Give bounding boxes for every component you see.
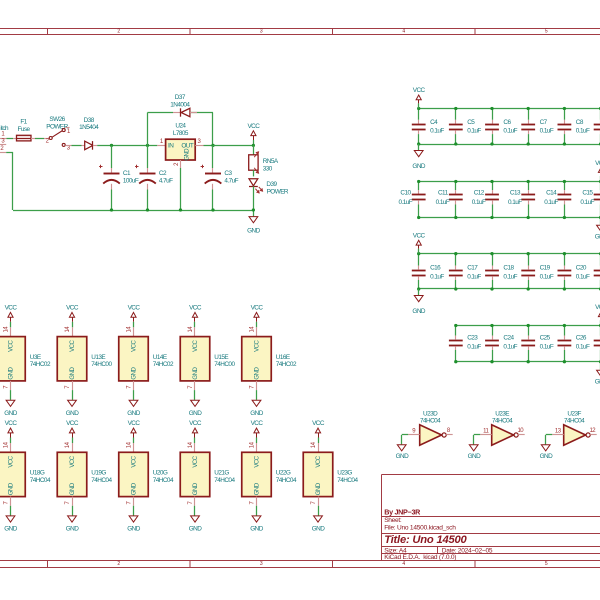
wire U23F input to ground [546, 434, 553, 436]
capacitor C11 0.1uF [455, 182, 457, 191]
svg-text:GND: GND [66, 526, 79, 533]
svg-text:VCC: VCC [192, 340, 199, 352]
capacitor C7 0.1uF [528, 109, 530, 120]
ground symbol GND main [249, 217, 258, 223]
svg-text:4: 4 [402, 561, 405, 567]
svg-text:GND: GND [540, 453, 553, 460]
U22G body [242, 452, 272, 496]
svg-text:74HC02: 74HC02 [153, 361, 174, 368]
svg-text:74HC04: 74HC04 [420, 417, 441, 424]
svg-text:VCC: VCC [413, 87, 426, 94]
svg-text:U13E: U13E [91, 354, 105, 361]
svg-text:GND: GND [468, 453, 481, 460]
capacitor C4 0.1uF [418, 109, 420, 120]
junction top rail at x=564.4 (row C) [563, 252, 566, 255]
U18G pin 14 VCC [10, 443, 12, 452]
svg-text:F1: F1 [20, 119, 27, 126]
connector pin 1 [0, 138, 7, 140]
svg-text:KiCad E.D.A. kicad (7.0.0): KiCad E.D.A. kicad (7.0.0) [384, 554, 456, 561]
svg-text:GND: GND [4, 526, 17, 533]
junction bottom rail at x=455.8 (row B) [454, 216, 457, 219]
svg-text:L7805: L7805 [173, 130, 189, 137]
svg-text:VCC: VCC [189, 304, 202, 311]
capacitor C14 0.1uF [564, 182, 566, 191]
svg-text:U23D: U23D [423, 410, 438, 417]
U21G body [180, 452, 210, 496]
U23G pin 7 GND [318, 497, 320, 506]
svg-text:VCC: VCC [595, 304, 600, 311]
svg-text:0.1uF: 0.1uF [436, 199, 450, 206]
svg-text:VCC: VCC [253, 455, 260, 467]
junction top rail at x=528.2 (row B) [527, 180, 530, 183]
capacitor C26 0.1uF [564, 326, 566, 336]
svg-text:GND: GND [4, 410, 17, 417]
bypass diode D37 1N4004 loop wires [147, 113, 149, 146]
LED D39 POWER [249, 179, 258, 186]
svg-text:GND: GND [130, 367, 137, 380]
svg-text:GND: GND [7, 367, 14, 380]
junction top rail at x=564.4 (row A) [563, 107, 566, 110]
svg-text:74HC00: 74HC00 [214, 361, 235, 368]
junction bottom rail at x=455.8 (row C) [454, 287, 457, 290]
svg-text:0.1uF: 0.1uF [467, 274, 481, 281]
svg-text:D37: D37 [175, 94, 186, 101]
U23E output pin 10 [518, 434, 525, 436]
svg-text:U23G: U23G [337, 470, 352, 477]
junction bottom rail at x=528.2 (row B) [527, 216, 530, 219]
svg-text:GND: GND [250, 410, 263, 417]
junction bottom rail at x=418.7 (row B) [417, 216, 420, 219]
svg-text:GND: GND [595, 233, 600, 240]
svg-text:74HC04: 74HC04 [30, 477, 51, 484]
wire fuse to switch SW26 [31, 138, 35, 140]
svg-text:C24: C24 [503, 335, 514, 342]
svg-text:GND: GND [250, 526, 263, 533]
VCC rail (row D) [456, 325, 600, 327]
svg-text:0.1uF: 0.1uF [503, 128, 517, 135]
U13E body [57, 337, 87, 381]
resistor RN5A 330 [249, 155, 258, 170]
svg-text:2: 2 [117, 29, 120, 35]
ground symbol at U23F input [541, 445, 550, 451]
svg-text:VCC: VCC [7, 340, 14, 352]
svg-text:File: Uno 14500.kicad_sch: File: Uno 14500.kicad_sch [384, 525, 456, 532]
wire U23E input to ground [474, 434, 481, 436]
svg-text:U15E: U15E [214, 354, 228, 361]
svg-text:GND: GND [7, 482, 14, 495]
svg-text:0.1uF: 0.1uF [503, 344, 517, 351]
junction bottom rail at x=600.6 (row B) [599, 216, 600, 219]
svg-text:VCC: VCC [130, 340, 137, 352]
svg-text:GND: GND [247, 228, 260, 235]
svg-text:U23F: U23F [567, 410, 581, 417]
svg-text:74HC04: 74HC04 [91, 477, 112, 484]
svg-text:C25: C25 [540, 335, 551, 342]
junction top rail at x=492.0 (row D) [490, 324, 493, 327]
svg-text:74HC04: 74HC04 [276, 477, 297, 484]
svg-text:VCC: VCC [66, 304, 79, 311]
svg-text:C4: C4 [430, 119, 438, 126]
U20G pin 14 VCC [133, 443, 135, 452]
U14E body [119, 337, 149, 381]
switch pin 3 contact [62, 143, 65, 146]
junction top rail at x=492.0 (row B) [490, 180, 493, 183]
connector pin 2 [0, 152, 6, 154]
svg-text:1N5404: 1N5404 [79, 124, 99, 131]
svg-text:C3: C3 [224, 170, 232, 177]
capacitor C19 0.1uF [528, 254, 530, 266]
svg-text:C5: C5 [467, 119, 475, 126]
capacitor C6 0.1uF [492, 109, 494, 120]
ground symbol below U21G [191, 516, 200, 522]
U23F output pin 12 [590, 434, 597, 436]
junction top rail at x=455.8 (row B) [454, 180, 457, 183]
ground symbol below U22G [252, 516, 261, 522]
svg-text:0.1uF: 0.1uF [508, 199, 522, 206]
U23D output pin 8 [446, 434, 453, 436]
junction at C2 / D37 loop [146, 144, 149, 147]
svg-text:GND: GND [192, 482, 199, 495]
U3E pin 14 VCC [10, 327, 12, 336]
U18G body [0, 452, 25, 496]
junction top rail at x=528.2 (row A) [527, 107, 530, 110]
junction bottom rail at x=564.4 (row C) [563, 287, 566, 290]
svg-text:C20: C20 [576, 265, 587, 272]
junction bottom rail at x=564.4 (row D) [563, 360, 566, 363]
U22G pin 14 VCC [256, 443, 258, 452]
svg-text:0.1uF: 0.1uF [503, 274, 517, 281]
svg-text:GND: GND [127, 526, 140, 533]
svg-text:C13: C13 [510, 190, 521, 197]
junction top rail at x=492.0 (row C) [490, 252, 493, 255]
title block [382, 475, 600, 561]
svg-text:U18G: U18G [30, 470, 45, 477]
U15E pin 7 GND [194, 381, 196, 390]
svg-text:C26: C26 [576, 335, 587, 342]
svg-text:74HC04: 74HC04 [564, 417, 585, 424]
svg-text:0.1uF: 0.1uF [472, 199, 486, 206]
ground symbol GND (row A) [418, 144, 420, 151]
U19G pin 14 VCC [72, 443, 74, 452]
junction bottom rail at x=600.6 (row C) [599, 287, 600, 290]
svg-text:GND: GND [189, 410, 202, 417]
svg-text:74HC04: 74HC04 [492, 417, 513, 424]
ground symbol GND (row C) [418, 289, 420, 296]
wire connector pin1 to fuse F1 [7, 138, 14, 140]
svg-text:GND: GND [69, 367, 76, 380]
capacitor C18 0.1uF [492, 254, 494, 266]
svg-text:GND: GND [253, 482, 260, 495]
svg-text:VCC: VCC [128, 304, 141, 311]
svg-text:C2: C2 [159, 170, 167, 177]
junction top rail at x=455.8 (row A) [454, 107, 457, 110]
svg-text:GND: GND [69, 482, 76, 495]
svg-text:By JNP−3R: By JNP−3R [384, 508, 421, 517]
U23D input pin 9 [408, 434, 420, 436]
svg-text:C17: C17 [467, 265, 478, 272]
junction top rail at x=564.4 (row D) [563, 324, 566, 327]
capacitor C16 0.1uF [418, 254, 420, 266]
svg-text:4.7uF: 4.7uF [224, 178, 238, 185]
U3E body [0, 337, 25, 381]
junction at C1 [110, 144, 113, 147]
svg-text:0.1uF: 0.1uF [430, 128, 444, 135]
svg-text:VCC: VCC [253, 340, 260, 352]
junction top rail at x=528.2 (row D) [527, 324, 530, 327]
svg-text:GND: GND [130, 482, 137, 495]
svg-text:5: 5 [545, 561, 548, 567]
svg-text:0.1uF: 0.1uF [576, 274, 590, 281]
junction top rail at x=564.4 (row B) [563, 180, 566, 183]
ground symbol at U23D input [397, 445, 406, 451]
wire U23D input to ground [402, 434, 409, 436]
svg-text:GND: GND [595, 379, 600, 386]
connector pin 3 [0, 144, 6, 146]
svg-text:0.1uF: 0.1uF [576, 128, 590, 135]
U15E pin 14 VCC [194, 327, 196, 336]
junction bottom rail at x=600.6 (row A) [599, 142, 600, 145]
ground symbol below U13E [68, 400, 77, 406]
svg-text:74HC04: 74HC04 [153, 477, 174, 484]
wire switch to diode D38 [72, 145, 82, 147]
svg-text:0.1uF: 0.1uF [540, 274, 554, 281]
svg-text:D38: D38 [84, 117, 95, 124]
svg-text:VCC: VCC [251, 304, 264, 311]
U16E pin 7 GND [256, 381, 258, 390]
svg-text:VCC: VCC [130, 455, 137, 467]
svg-text:VCC: VCC [69, 340, 76, 352]
junction ground rail at C3 [211, 208, 214, 211]
VCC rail (row C) [419, 253, 600, 255]
svg-text:100uF: 100uF [123, 178, 139, 185]
svg-text:0.1uF: 0.1uF [540, 128, 554, 135]
junction bottom rail at x=528.2 (row D) [527, 360, 530, 363]
svg-text:0.1uF: 0.1uF [399, 199, 413, 206]
capacitor C2 4.7uF [147, 145, 149, 168]
junction bottom rail at x=492.0 (row D) [490, 360, 493, 363]
svg-text:2: 2 [117, 561, 120, 567]
capacitor C8 0.1uF [564, 109, 566, 120]
junction ground rail at C2 [146, 208, 149, 211]
svg-text:GND: GND [189, 526, 202, 533]
svg-text:1N4004: 1N4004 [170, 101, 190, 108]
svg-text:Sheet:: Sheet: [384, 517, 402, 524]
svg-text:GND: GND [127, 410, 140, 417]
svg-text:5: 5 [545, 29, 548, 35]
junction top rail at x=600.6 (row B) [599, 180, 600, 183]
junction top rail at x=418.7 (row C) [417, 252, 420, 255]
svg-text:GND: GND [192, 367, 199, 380]
ground symbol below U16E [252, 400, 261, 406]
svg-text:VCC: VCC [69, 455, 76, 467]
wire D38 to regulator input / node [97, 145, 157, 147]
junction top rail at x=455.8 (row C) [454, 252, 457, 255]
svg-text:VCC: VCC [5, 304, 18, 311]
svg-text:Fuse: Fuse [17, 126, 30, 133]
U3E pin 7 GND [10, 381, 12, 390]
capacitor C17 0.1uF [455, 254, 457, 266]
svg-text:GND: GND [396, 453, 409, 460]
svg-text:0.1uF: 0.1uF [430, 274, 444, 281]
junction top rail at x=600.6 (row D) [599, 324, 600, 327]
U20G body [119, 452, 149, 496]
U21G pin 7 GND [194, 497, 196, 506]
svg-text:RN5A: RN5A [263, 158, 279, 165]
ground symbol below U23G [314, 516, 323, 522]
junction bottom rail at x=492.0 (row A) [490, 142, 493, 145]
U14E pin 14 VCC [133, 327, 135, 336]
svg-text:74HC02: 74HC02 [30, 361, 51, 368]
junction at C3 / OUT [211, 144, 214, 147]
svg-text:GND: GND [315, 482, 322, 495]
svg-text:4.7uF: 4.7uF [159, 178, 173, 185]
U13E pin 14 VCC [72, 327, 74, 336]
fuse F1 [17, 135, 32, 141]
svg-text:SW26: SW26 [49, 116, 65, 123]
U19G body [57, 452, 87, 496]
U21G pin 14 VCC [194, 443, 196, 452]
junction bottom rail at x=528.2 (row C) [527, 287, 530, 290]
svg-text:U21G: U21G [214, 470, 229, 477]
svg-text:74HC04: 74HC04 [337, 477, 358, 484]
svg-text:3: 3 [260, 29, 263, 35]
svg-text:C12: C12 [474, 190, 485, 197]
junction top rail at x=600.6 (row A) [599, 107, 600, 110]
svg-text:0.1uF: 0.1uF [467, 344, 481, 351]
svg-text:74HC00: 74HC00 [91, 361, 112, 368]
capacitor C1 100uF [111, 145, 113, 168]
svg-text:GND: GND [66, 410, 79, 417]
junction top rail at x=455.8 (row D) [454, 324, 457, 327]
ground symbol at U23E input [469, 445, 478, 451]
svg-text:VCC: VCC [192, 455, 199, 467]
svg-text:IN: IN [168, 142, 174, 149]
svg-text:VCC: VCC [7, 455, 14, 467]
GND rail (row C) [419, 288, 600, 290]
svg-text:C1: C1 [123, 170, 131, 177]
svg-text:VCC: VCC [247, 123, 260, 130]
VCC rail (row B) [419, 181, 600, 183]
junction ground rail at C1 [110, 208, 113, 211]
ground symbol below U15E [191, 400, 200, 406]
svg-text:C7: C7 [540, 119, 548, 126]
svg-text:U16E: U16E [276, 354, 290, 361]
svg-text:GND: GND [412, 308, 425, 315]
junction bottom rail at x=418.7 (row A) [417, 142, 420, 145]
ground symbol below U14E [129, 400, 138, 406]
capacitor C5 0.1uF [455, 109, 457, 120]
junction bottom rail at x=564.4 (row B) [563, 216, 566, 219]
svg-text:U22G: U22G [276, 470, 291, 477]
U15E body [180, 337, 210, 381]
svg-text:D39: D39 [266, 181, 277, 188]
svg-text:OUT: OUT [181, 142, 193, 149]
svg-text:GND: GND [412, 163, 425, 170]
capacitor C13 0.1uF [528, 182, 530, 191]
junction bottom rail at x=455.8 (row A) [454, 142, 457, 145]
U20G pin 7 GND [133, 497, 135, 506]
svg-text:VCC: VCC [251, 420, 264, 427]
capacitor C24 0.1uF [492, 326, 494, 336]
U23F input pin 13 [552, 434, 564, 436]
svg-text:C8: C8 [576, 119, 584, 126]
U24 pin 3 OUT [195, 145, 203, 147]
svg-text:0.1uF: 0.1uF [544, 199, 558, 206]
junction top rail at x=600.6 (row C) [599, 252, 600, 255]
junction at ground rail end [252, 208, 255, 211]
svg-text:U19G: U19G [91, 470, 106, 477]
svg-text:U24: U24 [175, 123, 186, 130]
ground symbol below U3E [6, 400, 15, 406]
ground symbol below U19G [68, 516, 77, 522]
svg-text:74HC02: 74HC02 [276, 361, 297, 368]
U18G pin 7 GND [10, 497, 12, 506]
svg-text:VCC: VCC [128, 420, 141, 427]
svg-text:GND: GND [312, 526, 325, 533]
svg-text:C19: C19 [540, 265, 551, 272]
U13E pin 7 GND [72, 381, 74, 390]
wire LED to ground rail [253, 186, 255, 216]
capacitor C20 0.1uF [564, 254, 566, 266]
junction bottom rail at x=455.8 (row D) [454, 360, 457, 363]
junction top rail at x=418.7 (row A) [417, 107, 420, 110]
svg-text:4: 4 [402, 29, 405, 35]
svg-text:VCC: VCC [5, 420, 18, 427]
svg-text:POWER: POWER [267, 189, 289, 196]
svg-text:C14: C14 [546, 190, 557, 197]
svg-text:C18: C18 [503, 265, 514, 272]
junction bottom rail at x=418.7 (row C) [417, 287, 420, 290]
capacitor C23 0.1uF [455, 326, 457, 336]
svg-text:C23: C23 [467, 335, 478, 342]
ground symbol below U20G [129, 516, 138, 522]
svg-text:0.1uF: 0.1uF [540, 344, 554, 351]
svg-text:VCC: VCC [315, 455, 322, 467]
switch pin 1 stub [65, 127, 69, 129]
junction bottom rail at x=492.0 (row B) [490, 216, 493, 219]
svg-text:VCC: VCC [312, 420, 325, 427]
GND rail (row D) [456, 361, 600, 363]
svg-text:330: 330 [263, 165, 273, 172]
svg-text:0.1uF: 0.1uF [580, 199, 594, 206]
ground symbol below U18G [6, 516, 15, 522]
svg-text:U20G: U20G [153, 470, 168, 477]
junction top rail at x=418.7 (row B) [417, 180, 420, 183]
svg-text:U3E: U3E [30, 354, 41, 361]
svg-text:VCC: VCC [189, 420, 202, 427]
U23E input pin 11 [480, 434, 492, 436]
U14E pin 7 GND [133, 381, 135, 390]
svg-text:0.1uF: 0.1uF [576, 344, 590, 351]
U24 pin 2 GND [180, 160, 182, 168]
wire connector pin2 down and ground rail [6, 152, 13, 154]
junction bottom rail at x=492.0 (row C) [490, 287, 493, 290]
capacitor C3 4.7uF [212, 145, 214, 168]
junction bottom rail at x=528.2 (row A) [527, 142, 530, 145]
svg-text:VCC: VCC [595, 160, 600, 167]
capacitor C25 0.1uF [528, 326, 530, 336]
svg-text:C6: C6 [503, 119, 511, 126]
svg-text:GND: GND [185, 148, 191, 161]
svg-text:U23E: U23E [495, 410, 509, 417]
svg-text:VCC: VCC [413, 233, 426, 240]
junction bottom rail at x=564.4 (row A) [563, 142, 566, 145]
U23G pin 14 VCC [318, 443, 320, 452]
svg-text:C16: C16 [430, 265, 441, 272]
svg-text:3: 3 [260, 561, 263, 567]
U22G pin 7 GND [256, 497, 258, 506]
VCC rail (row A) [419, 108, 600, 110]
